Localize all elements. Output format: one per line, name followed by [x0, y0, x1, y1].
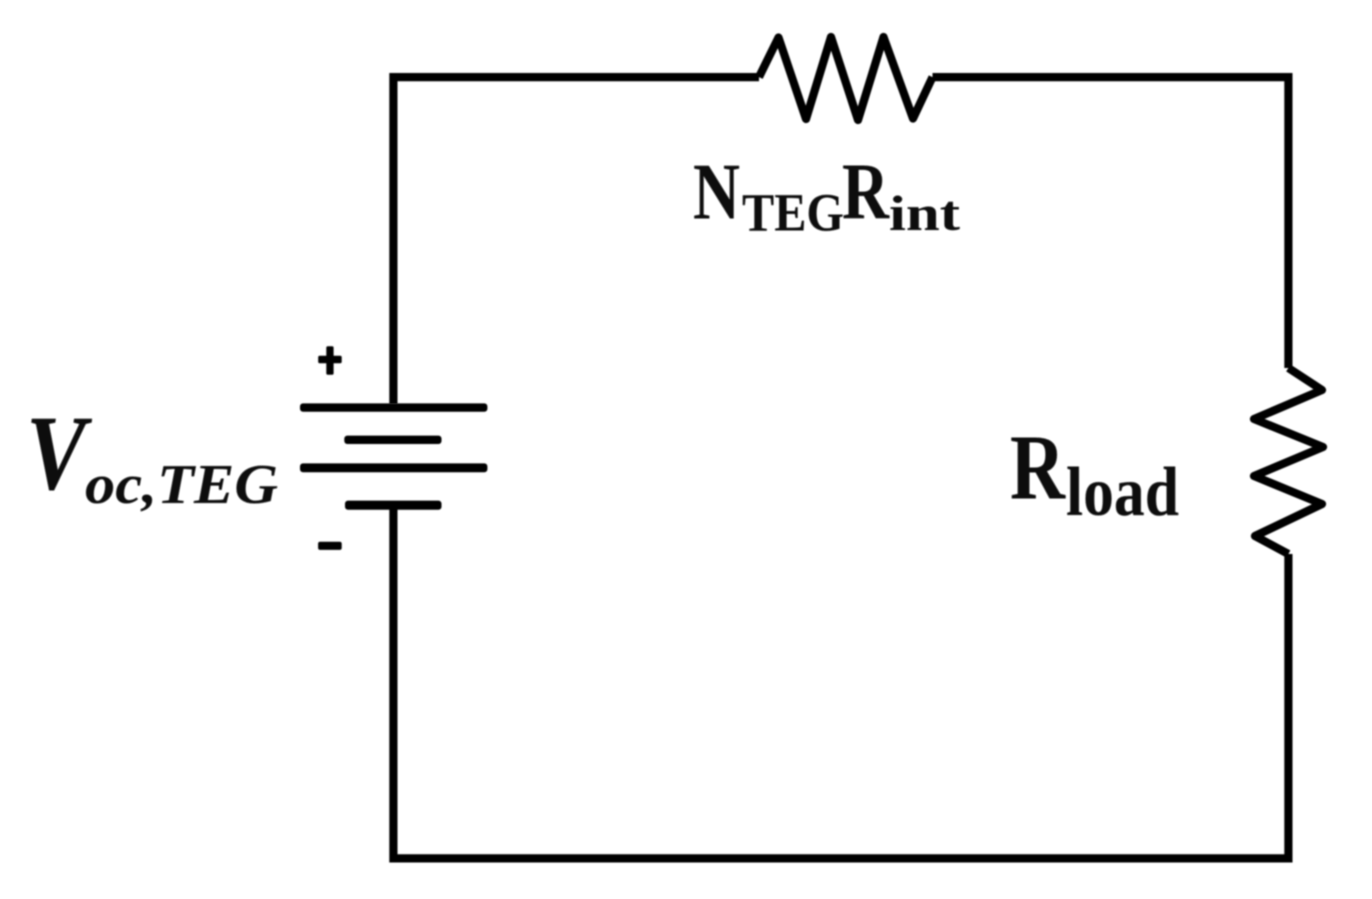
resistor Rload zigzag	[1254, 368, 1323, 554]
plus sign	[318, 356, 342, 364]
svg-text:N: N	[693, 149, 740, 237]
wire top-left section (top wire left + left wire upper)	[393, 77, 759, 404]
svg-text:R: R	[842, 149, 890, 237]
battery plate 2 (short)	[344, 436, 441, 444]
wire top-right section (top wire right + right wire upper)	[933, 77, 1289, 368]
svg-text:V: V	[26, 395, 92, 513]
minus sign	[318, 542, 342, 550]
svg-text:int: int	[889, 185, 960, 241]
svg-text:load: load	[1066, 454, 1179, 531]
battery plate 3 (long)	[300, 463, 487, 472]
battery V_oc,TEG plate 1 (long, positive)	[300, 403, 487, 411]
svg-text:oc,TEG: oc,TEG	[85, 454, 278, 516]
resistor NTEGRint zigzag	[759, 37, 933, 120]
svg-text:R: R	[1010, 417, 1066, 520]
wire bottom section (right wire lower + bottom wire + left wire lower)	[393, 506, 1288, 858]
battery plate 4 (short, negative)	[345, 501, 442, 510]
svg-text:TEG: TEG	[742, 183, 844, 243]
